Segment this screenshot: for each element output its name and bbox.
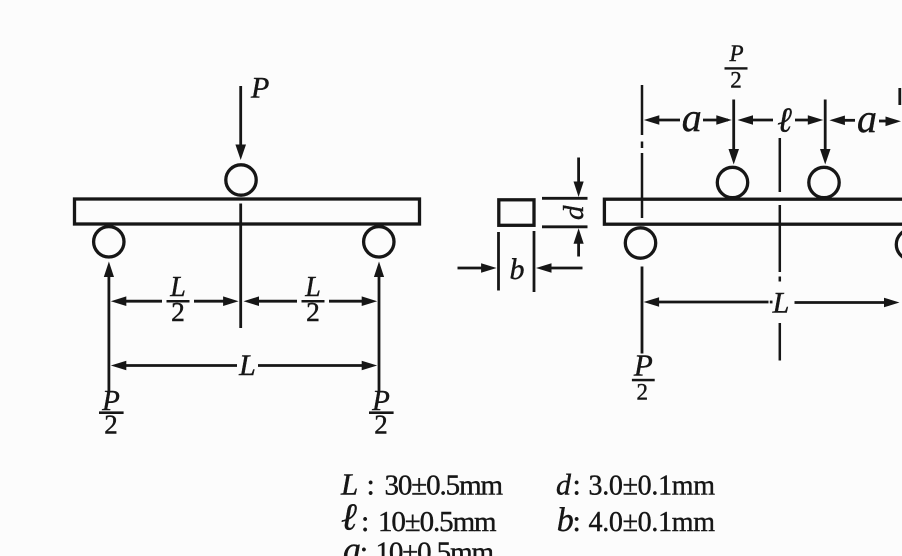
svg-text:d:3.0±0.1mm: d:3.0±0.1mm: [556, 469, 715, 502]
centre line (left diagram): [239, 204, 242, 329]
dimension b arrow left: [458, 267, 484, 270]
svg-text:2: 2: [104, 410, 118, 440]
support line below left roller (right diagram): [641, 267, 644, 354]
svg-text:d: d: [558, 205, 590, 220]
svg-text:a: a: [857, 96, 877, 141]
loading roller (left diagram): [226, 165, 256, 195]
svg-text:2: 2: [306, 296, 320, 327]
loading roller 2 (right diagram): [809, 167, 839, 197]
dimension a (right): [829, 116, 845, 126]
svg-text:2: 2: [171, 296, 185, 327]
dimension L (left diagram): [111, 361, 127, 371]
reaction arrow right P/2 (left diagram): [378, 276, 381, 393]
dimension b arrow right: [549, 267, 583, 270]
cross-section rectangle b x d: [499, 200, 534, 226]
support roller right, clipped (right diagram): [896, 229, 902, 259]
svg-text:P: P: [728, 41, 743, 66]
svg-text:P: P: [633, 348, 653, 383]
svg-text:L: L: [772, 287, 790, 320]
dimension d arrow top: [577, 158, 580, 184]
dimension L/2 right half: [244, 296, 260, 306]
svg-text:P: P: [250, 71, 269, 104]
svg-text:2: 2: [730, 67, 742, 92]
dimension ell (centre): [738, 115, 754, 125]
beam / specimen (right diagram): [604, 199, 902, 224]
svg-text:b:4.0±0.1mm: b:4.0±0.1mm: [557, 502, 715, 539]
reaction arrow left P/2 (left diagram): [108, 276, 111, 393]
svg-text:b: b: [510, 253, 525, 286]
chain line left support (right diagram): [641, 85, 644, 135]
extension line left of section: [497, 232, 500, 291]
load arrow P (left diagram): [239, 86, 242, 146]
loading roller 1 (right diagram): [717, 167, 747, 197]
centre chain line (right diagram): [779, 138, 782, 192]
support roller left (left diagram): [94, 227, 124, 257]
dimension d tick bottom: [542, 225, 588, 228]
svg-text:L: L: [238, 349, 256, 382]
svg-text:ℓ: ℓ: [777, 101, 792, 140]
svg-text:2: 2: [637, 380, 649, 405]
svg-text:a: a: [682, 95, 702, 140]
beam / specimen (left diagram): [75, 199, 420, 224]
load arrow 2 (right diagram): [824, 100, 827, 151]
load arrow 1 (right diagram): [732, 100, 735, 151]
support roller left (right diagram): [625, 228, 655, 258]
dimension L/2 left half: [111, 296, 127, 306]
svg-text:L:30±0.5mm: L:30±0.5mm: [340, 467, 504, 502]
dimension L (right diagram): [644, 297, 660, 307]
dimension a (left): [644, 115, 660, 125]
extension line right of section: [533, 231, 536, 292]
svg-text:2: 2: [374, 410, 388, 440]
svg-text:ℓ:10±0.5mm: ℓ:10±0.5mm: [341, 497, 497, 539]
dimension d arrow bottom: [577, 243, 580, 257]
dimension d tick top: [542, 197, 588, 200]
support roller right (left diagram): [364, 227, 394, 257]
tick right support top (right diagram): [898, 88, 901, 105]
